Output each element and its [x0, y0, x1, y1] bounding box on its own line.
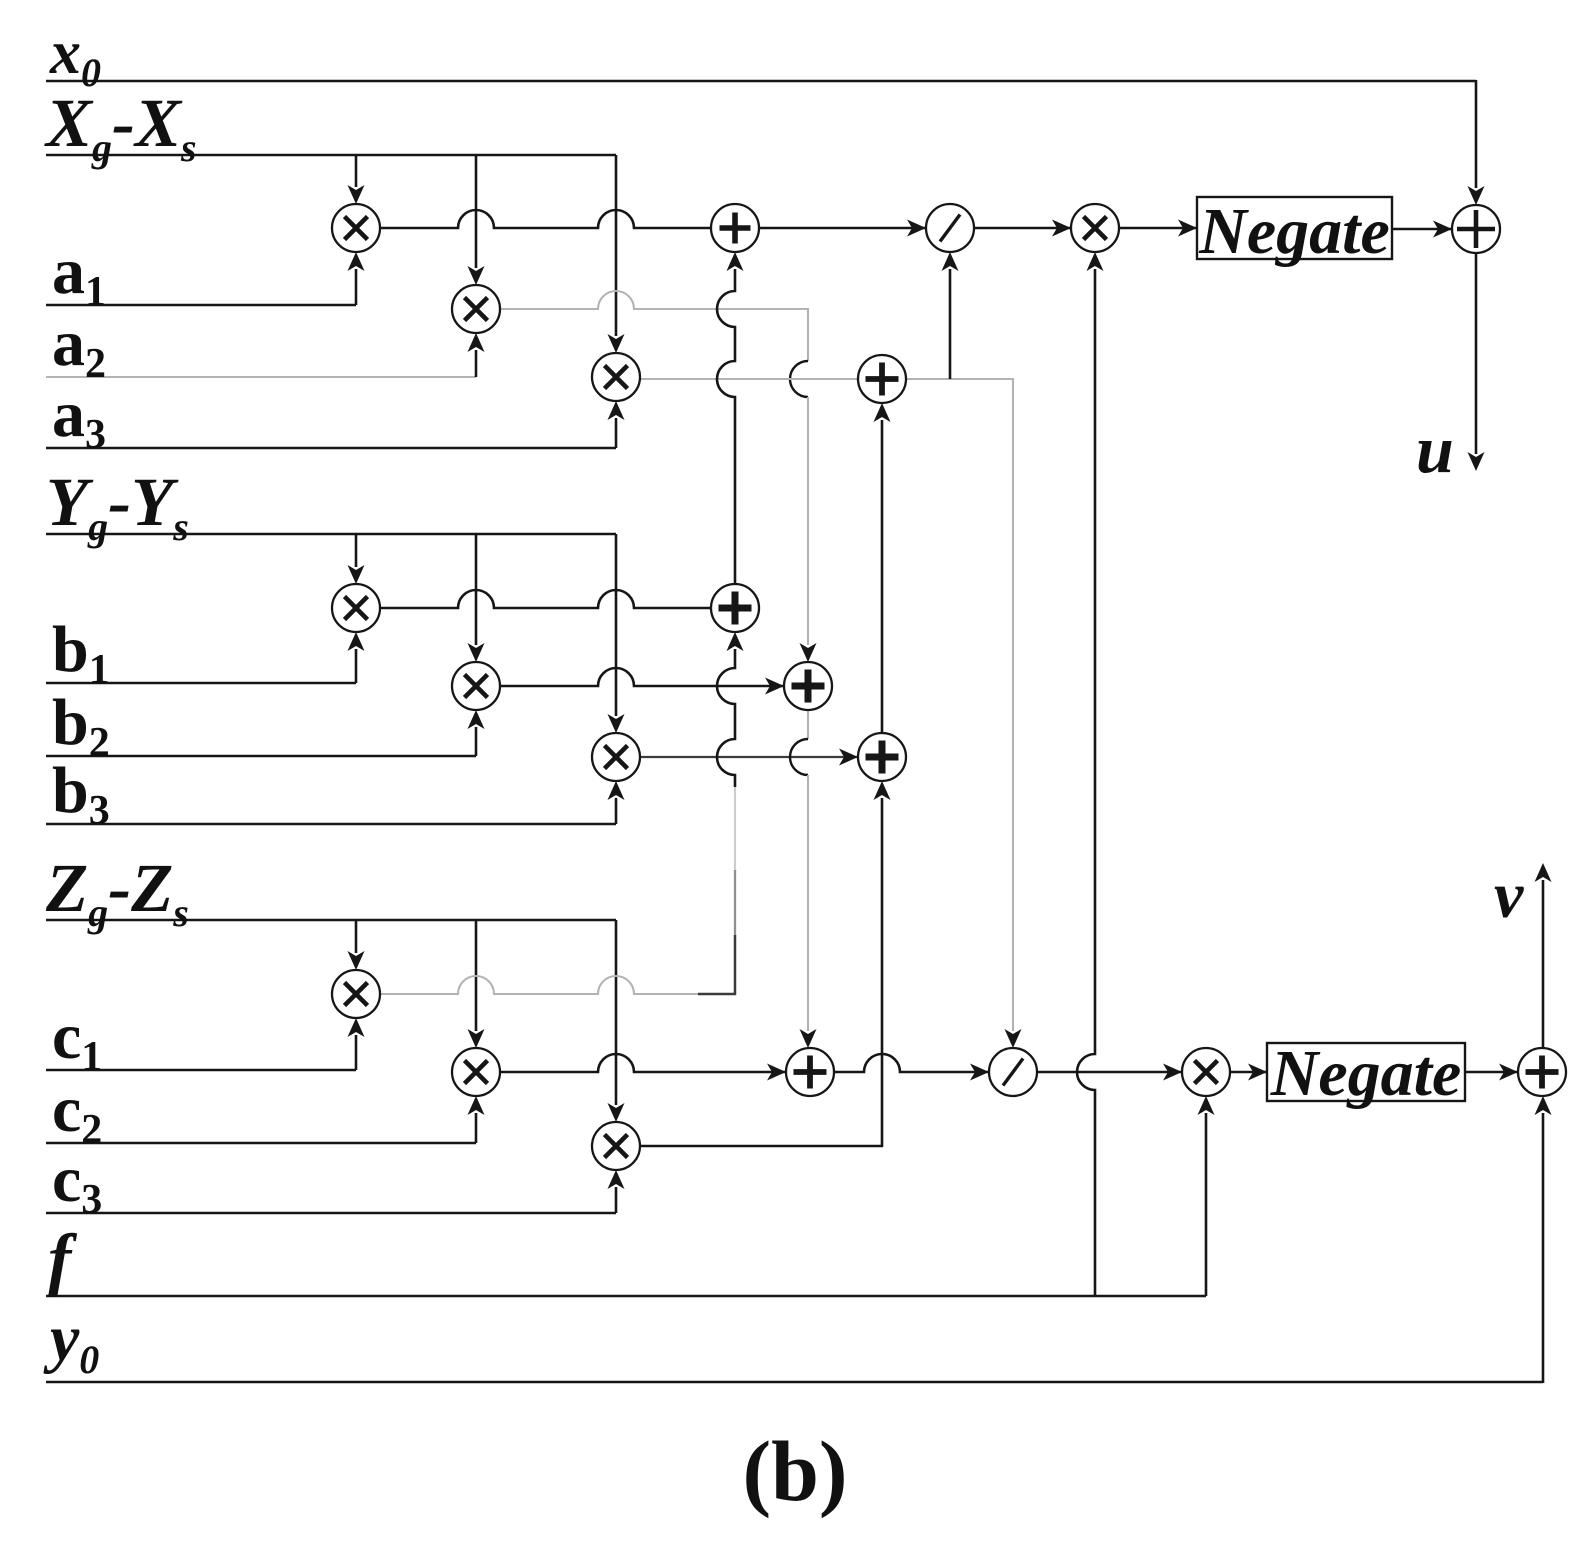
svg-text:(b): (b) [742, 1423, 847, 1519]
svg-text:Negate: Negate [1198, 195, 1390, 268]
svg-text:Xg-Xs: Xg-Xs [44, 85, 197, 170]
svg-text:Zg-Zs: Zg-Zs [45, 850, 189, 935]
svg-text:Yg-Ys: Yg-Ys [46, 464, 189, 549]
svg-text:u: u [1416, 411, 1454, 487]
svg-text:v: v [1494, 859, 1524, 932]
svg-text:Negate: Negate [1270, 1037, 1462, 1110]
